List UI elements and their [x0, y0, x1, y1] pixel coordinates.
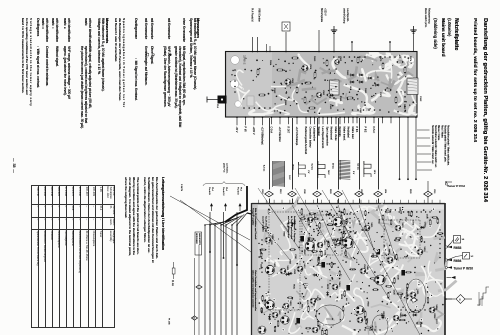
oscillogram 20 ms	[339, 160, 341, 180]
dashed block outline ZF-Regelung	[302, 215, 342, 255]
main unit board outline	[252, 203, 446, 335]
svg-text:Tuner P IV/d: Tuner P IV/d	[447, 184, 465, 188]
resistor netz R970	[310, 107, 315, 109]
diode D964	[349, 81, 354, 84]
wire from board bottom edge	[247, 213, 252, 214]
diagonal jumper wires	[258, 188, 300, 250]
wire to Pl.4 Punkt M	[252, 37, 254, 52]
grey wire bundle	[236, 225, 238, 335]
stub to R653	[446, 246, 452, 248]
dashed block outline Tonteil	[384, 220, 420, 258]
main board bottom label strip	[252, 204, 258, 335]
board edge tick stubs	[439, 200, 441, 204]
transistor V548	[387, 257, 393, 263]
resistor netz R964	[306, 82, 311, 84]
ground symbol	[333, 26, 335, 30]
wire to V960 Emitter	[257, 37, 259, 52]
page number 33	[13, 158, 17, 173]
resistor netz R968	[293, 57, 298, 59]
text block: Measurements (English)	[106, 18, 110, 43]
ground symbol 2	[413, 26, 415, 30]
thick feed wire	[225, 186, 247, 222]
margin node dot	[445, 183, 447, 185]
transistor V962	[335, 60, 340, 65]
stub to diamond 8	[446, 298, 453, 300]
resistor netz R977	[404, 68, 406, 73]
shape ellipse island 1	[316, 305, 344, 325]
stub to R654	[446, 259, 452, 261]
capacitor C965	[330, 80, 340, 95]
text block: Leitungskennzeichnung / Line identification	[162, 177, 166, 250]
Netzteil PCB board outline	[226, 52, 418, 118]
heading: Darstellung der gedruckten Platten	[483, 18, 489, 202]
svg-text:1/2: 1/2	[471, 256, 475, 258]
resistor netz R961	[260, 94, 265, 96]
wire to ground	[333, 30, 335, 52]
transistor V553	[429, 307, 435, 313]
test line with diamond B	[194, 258, 196, 335]
margin symbol box R654	[463, 253, 470, 260]
transistor V502	[287, 222, 293, 228]
bundle fan-in black wires	[237, 213, 247, 225]
plug symbol	[282, 22, 290, 31]
transistor V511	[267, 265, 273, 271]
diode D966	[358, 81, 363, 84]
copper trace channels (main board)	[415, 247, 429, 252]
stub to Tuner P III/10	[446, 267, 452, 269]
donut pads group	[306, 284, 309, 287]
svg-text:R654: R654	[454, 259, 462, 263]
main board bottom edge	[251, 203, 253, 335]
transistor V526	[417, 249, 423, 255]
transistor V964	[302, 65, 308, 71]
test point diamond 8	[374, 191, 382, 197]
resistor netz R976	[398, 61, 403, 63]
svg-text:1/4: 1/4	[462, 239, 466, 241]
wire stub cluster extra	[266, 44, 268, 52]
text block: Spannungsangaben note	[123, 18, 127, 107]
text block: Voltage statements note	[29, 18, 33, 106]
BAUGRUPPE box	[195, 232, 202, 255]
resistor netz R966	[328, 94, 333, 96]
oscillogram 20 ms	[298, 162, 300, 177]
diode D967	[367, 77, 372, 80]
resistor netz R962	[278, 69, 283, 71]
transistor V543	[332, 284, 338, 290]
oscillogram 0,2 ms	[272, 161, 274, 187]
transistor V523	[395, 225, 401, 231]
transistor V515	[335, 240, 341, 246]
leader to R654 box	[447, 257, 456, 261]
wire to ground 2	[413, 30, 415, 52]
transistor V512	[297, 266, 303, 272]
resistor netz R960	[257, 70, 259, 75]
node dot Tuner PIII	[445, 266, 447, 268]
main board inner light strip	[253, 205, 444, 210]
solder pad rows (netz board)	[364, 56, 366, 58]
black connector tab	[218, 96, 227, 104]
transistor V503	[307, 217, 313, 223]
main board top edge	[444, 203, 446, 335]
transistor V516	[339, 239, 345, 245]
brace bracket	[203, 182, 245, 187]
node dot R654	[445, 259, 447, 261]
wires from Pl.4 arrows over bundle	[236, 212, 238, 265]
mounting hole	[231, 56, 240, 65]
text block: Messungen (German)	[197, 18, 201, 38]
solder pads group (netz board)	[405, 76, 406, 77]
resistor netz R971	[357, 58, 359, 63]
tab wire	[207, 99, 218, 101]
test line with diamond 2	[198, 245, 200, 335]
transistor V551	[410, 292, 416, 298]
node dot R653	[445, 246, 447, 248]
resistor netz R967	[326, 61, 328, 66]
resistor netz R973	[382, 64, 384, 69]
table: line identification	[31, 185, 115, 328]
resistor netz R974	[386, 89, 391, 91]
stub to Tuner P IV/d	[446, 181, 453, 183]
resistor 11 kOhm	[172, 268, 175, 274]
resistor netz R965	[314, 73, 316, 78]
small arrow lower	[451, 276, 456, 279]
white diamond on board	[411, 298, 418, 303]
solder pads group (main board)	[327, 212, 328, 213]
connector pad U2	[247, 96, 254, 106]
test point diamond B	[355, 191, 363, 197]
transistor V536	[312, 327, 318, 333]
resistor netz R975	[395, 98, 397, 103]
heading: Netzteilplatte	[454, 18, 460, 50]
leader to R653 box	[447, 243, 451, 247]
transistor V547	[377, 279, 383, 285]
test point diamond 9	[427, 181, 429, 203]
mounting hole	[230, 80, 239, 89]
arrow Tuner PIII	[448, 266, 452, 269]
power transistor group	[343, 238, 353, 248]
resistor netz R969	[304, 98, 306, 103]
transistor V521	[364, 225, 370, 231]
transistor V960	[316, 92, 321, 97]
resistor group (main board)	[291, 249, 295, 251]
oscillogram 0,2 ms	[317, 161, 319, 178]
cluster feed wires	[417, 129, 430, 131]
arrow R653	[448, 246, 452, 249]
diode group (main board)	[325, 213, 330, 216]
capacitor C963	[407, 78, 418, 95]
margin diamond 8	[456, 295, 465, 304]
shape ellipse island 3	[372, 315, 388, 335]
IC block group	[300, 236, 304, 242]
diode D963	[349, 74, 354, 77]
margin symbol box R653	[454, 236, 461, 244]
svg-text:Tuner P III/10: Tuner P III/10	[454, 266, 474, 270]
main board left edge	[252, 203, 445, 205]
oscillogram 0,2 ms	[363, 161, 365, 177]
arrow to Pl.4 Punkt D	[239, 205, 241, 211]
wire to margin diamond	[447, 298, 456, 300]
transistor V545	[357, 317, 363, 323]
test point diamond 7	[334, 191, 342, 197]
resistor netz R963	[296, 88, 298, 93]
transistor V531	[280, 268, 286, 274]
transistor V541	[360, 268, 366, 274]
resistor netz R972	[348, 97, 353, 99]
copper trace channels (netz board)	[410, 88, 416, 104]
transistor V501	[265, 237, 271, 243]
long leader wires	[170, 196, 250, 240]
shape ellipse island 2	[406, 279, 426, 313]
dashed block outline Bereichsumschaltung	[269, 212, 300, 310]
transistor V555	[393, 315, 399, 321]
arrow R654	[448, 259, 452, 262]
mounting hole top right	[409, 57, 415, 63]
wire stub unlabeled	[351, 42, 353, 52]
transistor V535	[310, 298, 316, 304]
transistor V966	[285, 79, 291, 85]
test point wires	[269, 118, 271, 190]
test point diamond 1	[313, 191, 321, 197]
wire to plug symbol	[285, 32, 287, 52]
margin component squiggle	[477, 287, 489, 305]
transistor V532	[272, 312, 278, 318]
mounting hole	[235, 101, 241, 107]
transistor V513	[317, 242, 323, 248]
board light mounting panel	[227, 52, 272, 116]
diode D965	[358, 74, 363, 77]
test point diamond 5	[288, 191, 296, 197]
svg-text:R653: R653	[454, 246, 462, 250]
test point diamond 2	[265, 191, 273, 197]
transistor V533	[283, 303, 289, 309]
solder pad rows (main board)	[429, 211, 430, 212]
wire stub +220V	[318, 30, 320, 52]
wire stubs bottom of netz board with labels	[236, 117, 238, 125]
diode D960	[374, 84, 379, 87]
wire stub	[389, 42, 391, 52]
